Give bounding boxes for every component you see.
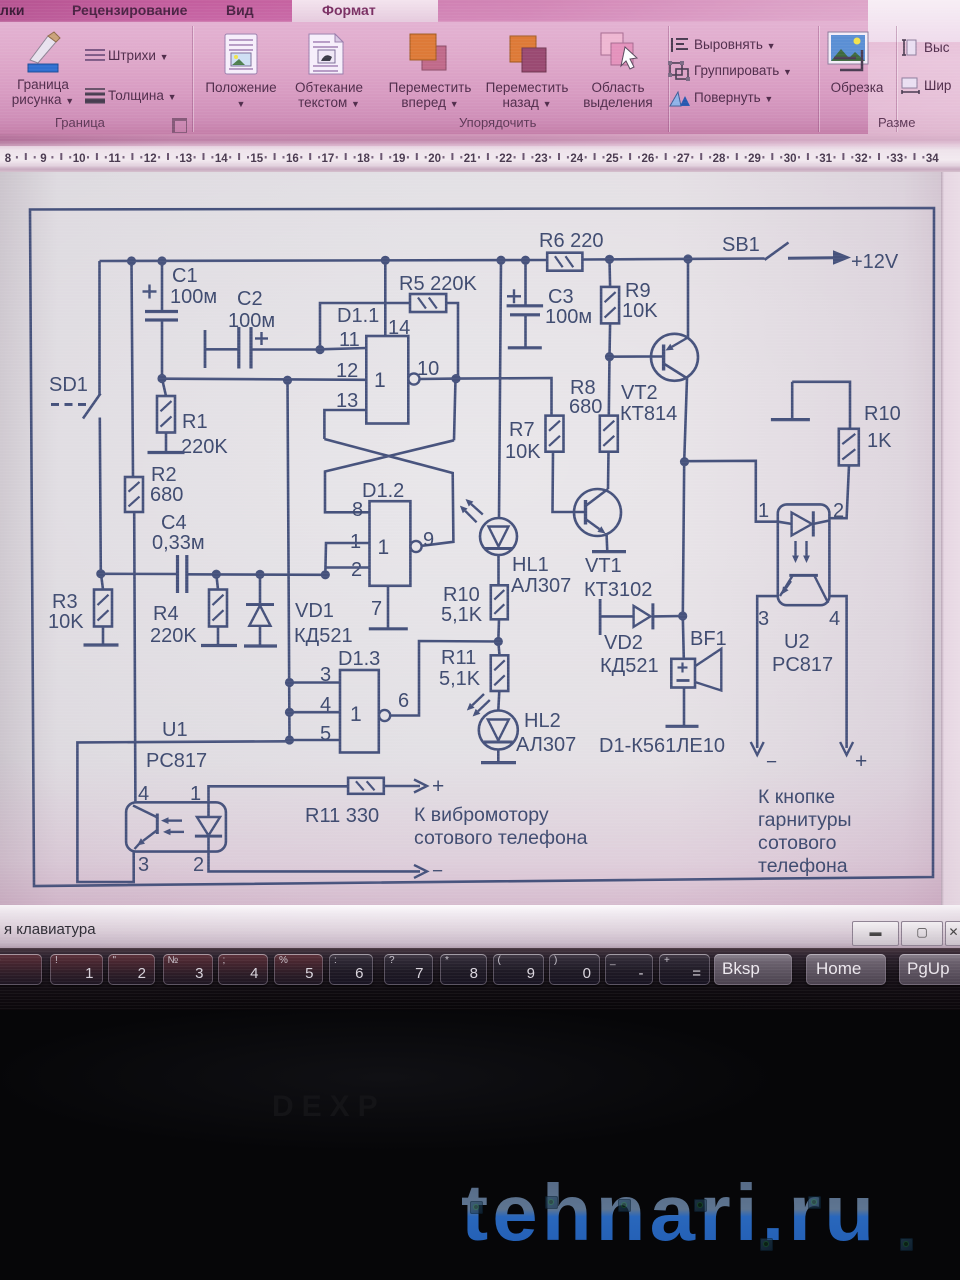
- label R9: [625, 280, 651, 302]
- svg-text:PC817: PC817: [772, 654, 833, 676]
- svg-text:VD1: VD1: [295, 600, 334, 622]
- label pin 9: [423, 529, 434, 551]
- label U1: [162, 719, 188, 741]
- label D1.3: [338, 648, 380, 670]
- svg-text:R11 330: R11 330: [305, 805, 379, 827]
- ground under BF1: [666, 725, 699, 728]
- wire R11 to HL2: [498, 691, 499, 710]
- label D1.1: [337, 305, 379, 327]
- wire to +12V with arrow: [788, 250, 851, 265]
- svg-text:D1.2: D1.2: [362, 480, 404, 502]
- svg-text:HL1: HL1: [512, 554, 549, 576]
- svg-text:R6 220: R6 220: [539, 230, 604, 252]
- ground under HL2: [481, 761, 516, 764]
- light arrows inside U2: [792, 541, 810, 563]
- label pin 1 of D1.2: [350, 531, 361, 553]
- op-amp D1.1 output bubble: [408, 373, 419, 384]
- node junction bus-VT2 emitter: [683, 254, 692, 263]
- node junction R10-R11-D1.3: [494, 637, 503, 646]
- svg-text:100м: 100м: [545, 306, 592, 328]
- wire R8 to base node: [607, 357, 610, 416]
- svg-text:U2: U2: [784, 631, 810, 653]
- switch SB1 blade: [765, 243, 789, 260]
- label R4 value 220K: [150, 625, 197, 647]
- svg-text:R1: R1: [182, 411, 208, 433]
- node junction VD2 - BF1 line: [678, 611, 687, 620]
- transistor VT2: [651, 334, 698, 381]
- svg-text:КД521: КД521: [600, 655, 659, 677]
- switch SD1 blade: [83, 394, 101, 419]
- node junction C2 - pin11: [315, 345, 324, 354]
- wire node to R1: [162, 379, 166, 453]
- label minus at U2: [766, 752, 777, 773]
- svg-text:D1.1: D1.1: [337, 305, 379, 327]
- svg-text:АЛ307: АЛ307: [511, 575, 571, 597]
- label U1 pin 1: [190, 783, 201, 805]
- svg-text:АЛ307: АЛ307: [516, 734, 576, 756]
- node junction bus-C3: [521, 256, 530, 265]
- svg-text:4: 4: [138, 783, 149, 805]
- svg-text:8: 8: [5, 153, 12, 165]
- label сотового телефона: [414, 827, 588, 849]
- wire R9 to node: [608, 323, 611, 356]
- svg-text:16: 16: [286, 153, 299, 165]
- label D1.2: [362, 480, 404, 502]
- label R8: [570, 377, 596, 399]
- svg-text:5,1K: 5,1K: [441, 604, 483, 626]
- node junction bus-D1.1 pin 14: [381, 256, 390, 265]
- svg-text:R9: R9: [625, 280, 651, 302]
- svg-text:SB1: SB1: [722, 234, 760, 256]
- wire VD1 top lead: [259, 574, 262, 604]
- resistor R2: [125, 477, 143, 512]
- diode VD2 lead end bar: [599, 599, 602, 635]
- label U1 pin 2: [193, 854, 204, 876]
- ground under R3: [84, 643, 119, 646]
- svg-text:33: 33: [890, 153, 903, 165]
- svg-text:C2: C2: [237, 288, 263, 310]
- svg-text:2: 2: [351, 559, 362, 581]
- label C1 value 100м: [170, 286, 217, 308]
- label VT2: [621, 382, 658, 404]
- svg-text:2: 2: [193, 854, 204, 876]
- light arrows of HL1: [460, 499, 483, 522]
- wire ground to R10 1K: [792, 382, 850, 429]
- svg-text:1: 1: [758, 500, 769, 522]
- svg-text:220K: 220K: [150, 625, 197, 647]
- label pin 4: [320, 694, 331, 716]
- svg-text:4: 4: [829, 608, 840, 630]
- wire bus down to SD1: [98, 261, 101, 395]
- label HL1 type АЛ307: [511, 575, 571, 597]
- wire U2 pin 4 down to plus: [829, 596, 853, 755]
- wire top +12V bus left segment: [100, 260, 548, 261]
- wire diagonal from pin13 to D1.2 output: [324, 439, 453, 546]
- buzzer BF1: [671, 649, 721, 691]
- svg-text:SD1: SD1: [49, 374, 88, 396]
- label R10 small: [443, 584, 480, 606]
- label R7: [509, 419, 535, 441]
- svg-text:9: 9: [40, 153, 46, 165]
- LED inside U1: [195, 802, 222, 851]
- svg-text:15: 15: [250, 153, 263, 165]
- wire C4 to D1.2 inputs node: [187, 573, 325, 576]
- wire bus to C1: [161, 261, 164, 311]
- svg-text:+: +: [432, 775, 444, 798]
- svg-text:28: 28: [713, 153, 726, 165]
- wire node to VT2 base: [610, 355, 664, 358]
- label R11 small: [441, 647, 476, 669]
- label гарнитуры: [758, 809, 852, 831]
- diode VD1 cathode bar: [246, 603, 274, 606]
- node junction D1.1 output: [451, 374, 460, 383]
- resistor R5: [410, 294, 446, 312]
- wire C1 to R1 node: [161, 320, 164, 379]
- wire C2 left lead: [205, 348, 238, 351]
- resistor R4: [209, 590, 227, 627]
- ground under R4: [201, 644, 237, 647]
- svg-text:220K: 220K: [181, 436, 228, 458]
- wire HL1 to R10: [497, 555, 500, 585]
- wire mid bus from SD1 to C4: [101, 572, 178, 575]
- label HL2: [524, 710, 561, 732]
- transistor inside U1: [133, 806, 157, 850]
- wire R5 to output node: [446, 303, 458, 379]
- svg-text:22: 22: [499, 153, 512, 165]
- svg-text:3: 3: [138, 854, 149, 876]
- wire D1.2 pin 1: [325, 543, 369, 575]
- svg-text:VT2: VT2: [621, 382, 658, 404]
- label R10 1K value: [867, 430, 892, 452]
- wire R2 down to U1 pin 4: [134, 512, 135, 802]
- wire VD2 left lead: [600, 615, 634, 618]
- svg-text:R3: R3: [52, 591, 78, 613]
- label VD2 type КД521: [600, 655, 659, 677]
- diode VD1 triangle: [249, 606, 270, 626]
- svg-text:R5 220K: R5 220K: [399, 273, 477, 295]
- wire D1.3 pin 4: [290, 711, 341, 714]
- label C3: [548, 286, 574, 308]
- svg-text:11: 11: [339, 329, 360, 351]
- svg-text:HL2: HL2: [524, 710, 561, 732]
- resistor R1: [157, 396, 175, 433]
- label C2 value 100м: [228, 310, 275, 332]
- svg-text:29: 29: [748, 153, 761, 165]
- svg-text:VD2: VD2: [604, 632, 643, 654]
- svg-text:27: 27: [677, 153, 690, 165]
- svg-text:680: 680: [569, 396, 602, 418]
- wire D1.3 output to R10/R11 node: [390, 641, 498, 716]
- resistor R8: [600, 416, 618, 452]
- wire bus down to R2: [132, 261, 134, 477]
- wire pin5 node to U1 pin3 loop: [77, 741, 289, 882]
- svg-text:10K: 10K: [48, 611, 84, 633]
- resistor R6: [547, 253, 582, 271]
- svg-text:19: 19: [393, 153, 406, 165]
- wire node up and over to R5: [320, 303, 410, 350]
- svg-text:К кнопке: К кнопке: [758, 786, 835, 808]
- wire BF1 to ground: [683, 688, 686, 727]
- svg-text:32: 32: [855, 153, 868, 165]
- label R10 1K name: [864, 403, 901, 425]
- drawing frame border: [30, 208, 934, 886]
- svg-text:PC817: PC817: [146, 750, 207, 772]
- label plus output: [432, 775, 444, 798]
- svg-text:D1-К561ЛЕ10: D1-К561ЛЕ10: [599, 735, 725, 757]
- label C1: [172, 265, 198, 287]
- label сотового: [758, 832, 837, 854]
- resistor R11 5.1K: [491, 655, 509, 691]
- LED HL1: [480, 518, 517, 555]
- svg-text:R10: R10: [443, 584, 480, 606]
- svg-text:2: 2: [833, 500, 844, 522]
- svg-text:D1.3: D1.3: [338, 648, 380, 670]
- svg-text:10: 10: [417, 358, 439, 380]
- label К вибромотору: [414, 804, 549, 826]
- svg-text:1: 1: [374, 369, 386, 392]
- wire U1 pin2 to minus arrow: [209, 852, 428, 878]
- switch SD1 dashes: [51, 403, 89, 406]
- label pin 12: [336, 360, 358, 382]
- label C2: [237, 288, 263, 310]
- node junction bus-R9: [605, 255, 614, 264]
- wire bus to C3: [524, 260, 527, 306]
- LED HL2: [479, 711, 518, 750]
- label R3: [52, 591, 78, 613]
- capacitor C2 lead end bar: [204, 330, 207, 368]
- node junction D1.3 pin 4: [285, 708, 294, 717]
- label pin 10: [417, 358, 439, 380]
- label R1: [182, 411, 208, 433]
- label BF1: [690, 628, 727, 650]
- wire VT2 collector down: [683, 378, 687, 659]
- svg-text:5: 5: [320, 723, 331, 745]
- svg-text:8: 8: [352, 499, 363, 521]
- svg-text:17: 17: [322, 153, 335, 165]
- wire pin12 node down to D1.3 inputs: [288, 380, 290, 740]
- wire C2 right lead to node: [251, 348, 320, 351]
- label +12V: [851, 251, 899, 273]
- svg-text:10: 10: [73, 153, 86, 165]
- capacitor C3 plates: [507, 306, 543, 315]
- ground under R1: [148, 451, 185, 454]
- label D1 type К561ЛЕ10: [599, 735, 725, 757]
- transistor inside U2: [780, 575, 828, 603]
- svg-text:100м: 100м: [170, 286, 217, 308]
- node junction VT2 collector - U2: [680, 457, 689, 466]
- label U2 pin 1: [758, 500, 769, 522]
- label R11 value 5,1K: [439, 668, 481, 690]
- svg-text:3: 3: [320, 664, 331, 686]
- svg-text:12: 12: [144, 153, 157, 165]
- label C4 value 0,33м: [152, 532, 205, 554]
- svg-text:13: 13: [179, 153, 192, 165]
- label pin 13: [336, 390, 358, 412]
- svg-text:КТ814: КТ814: [620, 403, 677, 425]
- label R8 value 680: [569, 396, 602, 418]
- capacitor C3 plus: [507, 289, 521, 303]
- svg-text:24: 24: [570, 153, 583, 165]
- transistor VT1: [574, 489, 621, 536]
- label C4: [161, 512, 187, 534]
- label U1 type PC817: [146, 750, 207, 772]
- svg-text:25: 25: [606, 153, 619, 165]
- svg-text:31: 31: [819, 153, 832, 165]
- svg-text:34: 34: [926, 153, 939, 165]
- node junction R3 top: [96, 569, 105, 578]
- svg-text:+12V: +12V: [851, 251, 899, 273]
- label R9 value 10K: [622, 300, 658, 322]
- label VT2 type КТ814: [620, 403, 677, 425]
- label HL1: [512, 554, 549, 576]
- wire VT1 collector to R8: [607, 452, 610, 489]
- wire VT2 node to U2 pin 1: [685, 461, 778, 522]
- svg-text:сотового: сотового: [758, 832, 837, 854]
- label U2: [784, 631, 810, 653]
- label pin 11: [339, 329, 360, 351]
- border picture button: [24, 30, 64, 74]
- label U2 pin 4: [829, 608, 840, 630]
- wire D1.3 pin 5: [290, 739, 341, 742]
- light arrows inside U1: [161, 817, 184, 835]
- wire pin 11 to D1.1: [320, 348, 366, 349]
- capacitor C1 plates: [145, 312, 178, 321]
- svg-text:−: −: [432, 861, 443, 882]
- svg-text:C3: C3: [548, 286, 574, 308]
- label pin 8: [352, 499, 363, 521]
- ground under VD1: [244, 644, 277, 647]
- node junction D1.3 pin 5: [285, 735, 294, 744]
- label R11 330: [305, 805, 379, 827]
- wire top bus right of R6: [582, 259, 764, 260]
- wire D1.3 pin 3: [290, 681, 341, 684]
- svg-text:1: 1: [350, 703, 362, 726]
- logic gate D1.3 body: [340, 670, 379, 753]
- label pin 3: [320, 664, 331, 686]
- label pin 5: [320, 723, 331, 745]
- svg-text:BF1: BF1: [690, 628, 727, 650]
- ground under D1.2 pin 7: [369, 627, 408, 630]
- svg-text:30: 30: [784, 153, 797, 165]
- wire bus to VT2 emitter: [687, 259, 690, 339]
- svg-text:−: −: [766, 752, 777, 773]
- svg-text:14: 14: [388, 317, 410, 339]
- node junction R1 top: [157, 374, 166, 383]
- svg-text:100м: 100м: [228, 310, 275, 332]
- capacitor C2 plus sign: [255, 332, 268, 345]
- svg-text:КТ3102: КТ3102: [584, 579, 652, 601]
- node junction bus-R2 branch: [127, 256, 136, 265]
- diode VD2 triangle: [634, 606, 651, 627]
- capacitor C1 plus sign: [143, 285, 157, 299]
- logic gate D1.2 body: [370, 501, 411, 586]
- label R7 value 10K: [505, 441, 541, 463]
- svg-text:23: 23: [535, 153, 548, 165]
- svg-text:0,33м: 0,33м: [152, 532, 205, 554]
- resistor R3: [94, 590, 112, 627]
- svg-text:C4: C4: [161, 512, 187, 534]
- label U2 pin 2: [833, 500, 844, 522]
- wire VT1 emitter to ground: [605, 533, 608, 552]
- label R1 value 220K: [181, 436, 228, 458]
- label VT1 type КТ3102: [584, 579, 652, 601]
- svg-text:6: 6: [398, 690, 409, 712]
- LED inside U2: [778, 511, 829, 536]
- label R2 value 680: [150, 484, 183, 506]
- ruler ticks (decorative): [5, 153, 940, 165]
- label U2 type PC817: [772, 654, 833, 676]
- wire VD2 to node: [653, 615, 683, 618]
- label VD1 type КД521: [294, 625, 353, 647]
- wire output node to R7: [456, 378, 552, 416]
- label R6 220: [539, 230, 604, 252]
- svg-text:К вибромотору: К вибромотору: [414, 804, 549, 826]
- optocoupler U2 body: [778, 504, 830, 605]
- logic gate D1.1 body: [366, 336, 408, 424]
- svg-text:26: 26: [642, 153, 655, 165]
- wire SD1 down to mid bus: [100, 418, 101, 574]
- node junction bus-C1: [157, 256, 166, 265]
- svg-text:21: 21: [464, 153, 477, 165]
- label U2 pin 3: [758, 608, 769, 630]
- node junction bus-HL1 branch: [496, 256, 505, 265]
- wire C3 to ground: [524, 315, 527, 348]
- capacitor C4 plates: [178, 555, 187, 593]
- node junction D1.2 pins 1-2: [321, 570, 330, 579]
- svg-text:R7: R7: [509, 419, 535, 441]
- wire D1.1 output to node: [420, 377, 457, 380]
- svg-text:7: 7: [371, 598, 382, 620]
- svg-text:C1: C1: [172, 265, 198, 287]
- wire R3 leads: [101, 574, 103, 645]
- svg-text:1: 1: [378, 536, 390, 559]
- svg-text:R11: R11: [441, 647, 476, 669]
- wire diagonal to D1.2 pin 8: [325, 440, 454, 512]
- svg-text:680: 680: [150, 484, 183, 506]
- label VD1: [295, 600, 334, 622]
- label pin 2 of D1.2: [351, 559, 362, 581]
- wire D1.2 pin 2: [326, 566, 370, 569]
- label pin 6: [398, 690, 409, 712]
- svg-text:гарнитуры: гарнитуры: [758, 809, 852, 831]
- svg-text:сотового телефона: сотового телефона: [414, 827, 588, 849]
- svg-text:R4: R4: [153, 603, 179, 625]
- label plus at U2: [855, 750, 867, 773]
- wire D1.1 pin 13: [324, 410, 366, 439]
- wire R11 to plus arrow: [384, 780, 427, 793]
- label R4: [153, 603, 179, 625]
- label minus output: [432, 861, 443, 882]
- svg-text:VT1: VT1: [585, 555, 622, 577]
- label pin 7: [371, 598, 382, 620]
- wire U2 pin 3 down to minus: [751, 596, 779, 755]
- svg-text:10K: 10K: [505, 441, 541, 463]
- label R2: [151, 464, 177, 486]
- label HL2 type АЛ307: [516, 734, 576, 756]
- svg-text:11: 11: [109, 153, 122, 165]
- label U1 pin 4: [138, 783, 149, 805]
- wire R10 1K to U2 pin 2: [829, 465, 849, 518]
- svg-text:18: 18: [357, 153, 370, 165]
- svg-text:3: 3: [758, 608, 769, 630]
- label К кнопке: [758, 786, 835, 808]
- node junction VD1 top: [255, 570, 264, 579]
- label VD2: [604, 632, 643, 654]
- logic gate D1.2 output bubble: [410, 541, 421, 552]
- resistor R10 1K: [839, 429, 859, 466]
- svg-text:20: 20: [428, 153, 441, 165]
- ground under VT1: [592, 550, 626, 553]
